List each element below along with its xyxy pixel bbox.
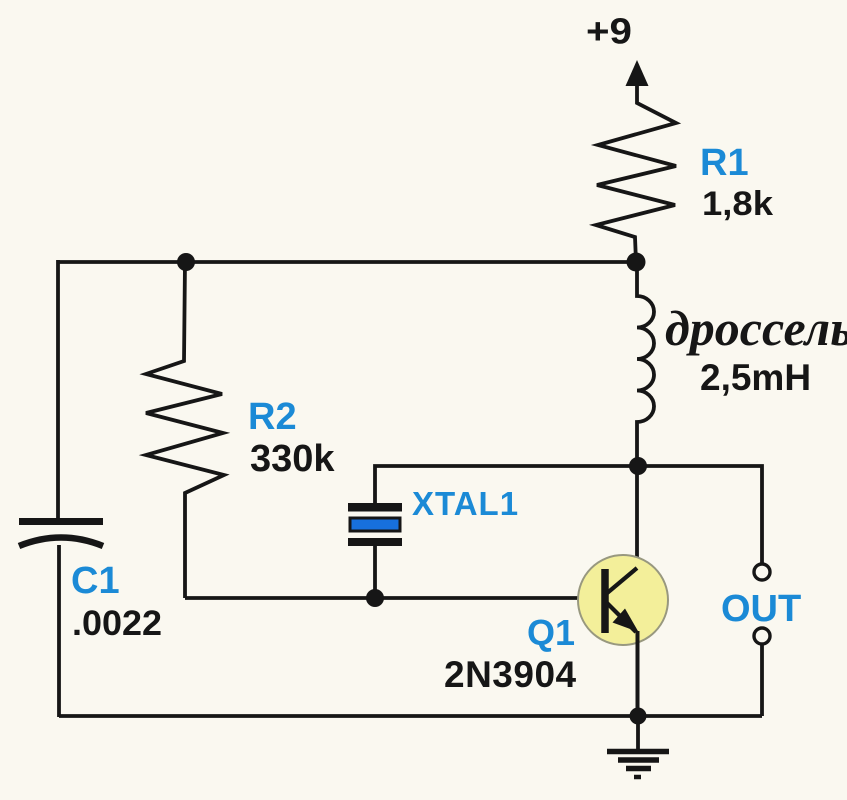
transistor Q1 — [578, 555, 668, 645]
power arrow — [626, 60, 649, 86]
terminal OUT lower — [754, 628, 770, 644]
svg-text:2N3904: 2N3904 — [444, 654, 577, 695]
terminal OUT upper — [754, 564, 770, 580]
wire left vertical — [56, 260, 60, 519]
svg-text:1,8k: 1,8k — [702, 185, 773, 223]
wire crystal bottom stem — [373, 546, 377, 598]
wire crystal top to OUT — [375, 466, 762, 564]
node junction collector — [629, 457, 647, 475]
node junction R1 bottom — [627, 253, 646, 272]
svg-text:XTAL1: XTAL1 — [412, 485, 519, 522]
capacitor C1 — [19, 522, 103, 547]
node junction base wire — [366, 589, 384, 607]
inductor choke — [637, 262, 654, 466]
svg-text:дроссель: дроссель — [665, 300, 847, 356]
svg-text:330k: 330k — [250, 438, 335, 480]
wire C1 lower vertical — [57, 545, 61, 717]
crystal XTAL1 — [348, 503, 402, 546]
resistor R1 — [596, 82, 676, 262]
ground — [607, 716, 669, 777]
svg-text:R1: R1 — [700, 142, 749, 184]
wire OUT lower vertical — [760, 644, 764, 716]
svg-text:2,5mH: 2,5mH — [700, 357, 811, 398]
svg-text:Q1: Q1 — [527, 612, 575, 653]
resistor R2 — [146, 262, 224, 598]
svg-text:+9: +9 — [586, 11, 632, 52]
wire emitter vertical — [636, 631, 640, 717]
wire bottom horizontal — [59, 714, 762, 718]
wire top horizontal — [58, 260, 636, 264]
svg-text:OUT: OUT — [721, 588, 801, 630]
node junction ground — [630, 708, 647, 725]
wire base horizontal — [185, 596, 604, 600]
wire collector vertical — [635, 466, 639, 570]
svg-text:R2: R2 — [248, 396, 297, 438]
svg-text:.0022: .0022 — [72, 603, 162, 643]
svg-text:C1: C1 — [71, 560, 120, 602]
node junction top-left — [177, 253, 195, 271]
